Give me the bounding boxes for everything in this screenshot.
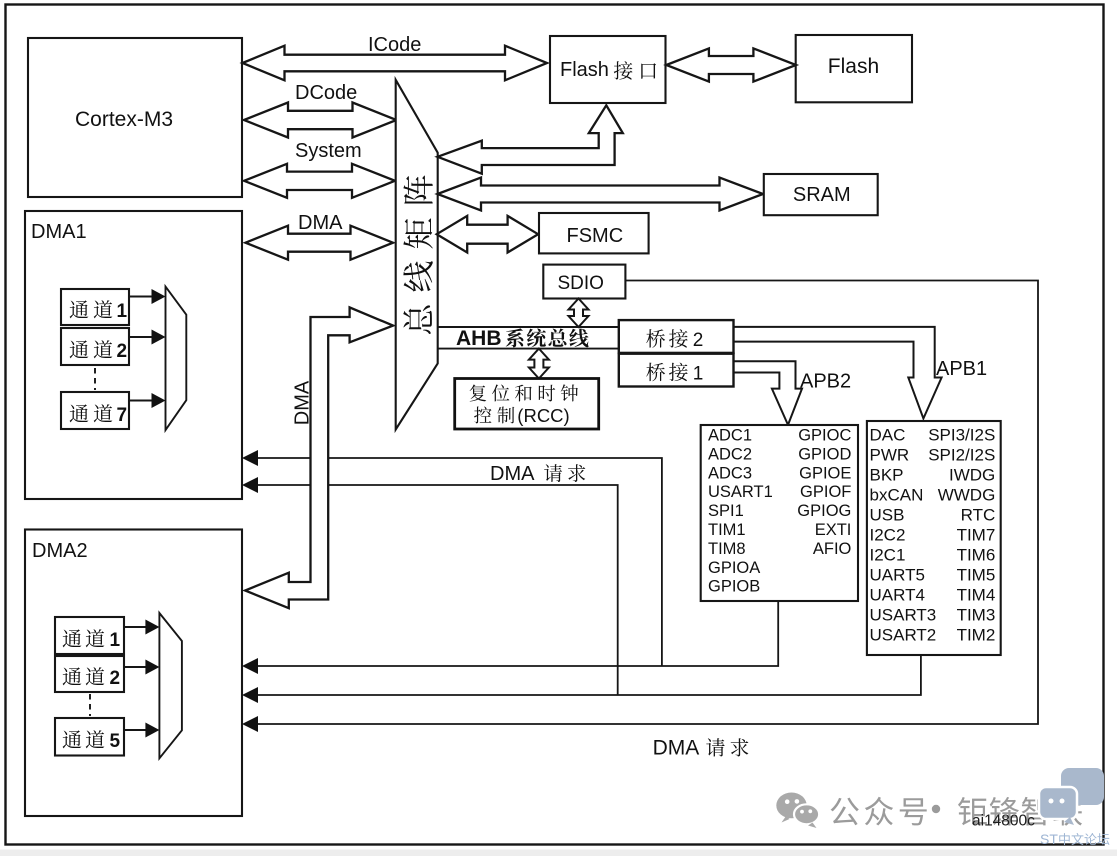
svg-text:2: 2 (110, 668, 121, 689)
wire DMA1 channel7 to mux (129, 393, 166, 408)
svg-text:TIM8: TIM8 (708, 540, 746, 558)
bus arrow DCode with label (244, 82, 397, 138)
svg-text:GPIOB: GPIOB (708, 578, 760, 596)
svg-text:FSMC: FSMC (567, 225, 624, 247)
svg-text:DMA: DMA (653, 737, 700, 760)
svg-text:USART2: USART2 (870, 626, 937, 645)
box DMA2 channel 1 (通道1) (55, 617, 124, 654)
label DMA 请求 (lower) (653, 737, 749, 760)
svg-text:1: 1 (693, 364, 704, 385)
box APB2 peripherals list (701, 425, 858, 601)
box FSMC (539, 213, 649, 253)
box Flash 接口 (Flash interface) (550, 36, 666, 103)
svg-text:GPIOE: GPIOE (799, 464, 851, 482)
watermark text ST中文论坛 (1040, 831, 1109, 847)
box reset and clock control 复位和时钟控制(RCC) (455, 379, 599, 430)
box DMA1 (25, 211, 242, 499)
bus arrow to SRAM (438, 178, 764, 211)
svg-text:WWDG: WWDG (938, 486, 996, 505)
bent bus arrow bus-matrix to Flash interface (438, 105, 623, 173)
box DMA2 channel 2 (通道2) (55, 656, 124, 692)
bus arrow System with label (244, 140, 395, 198)
connector bridge1 to APB2 hollow arrow (734, 361, 803, 425)
svg-text:ADC2: ADC2 (708, 445, 752, 463)
svg-text:DMA: DMA (490, 463, 535, 485)
box DMA1 channel 1 (通道1) (61, 289, 129, 325)
svg-text:1: 1 (117, 301, 128, 322)
AHB system bus band AHB系统总线 (438, 327, 619, 350)
wire DMA2 channel1 to mux (124, 620, 159, 635)
svg-text:ai14800c: ai14800c (972, 813, 1035, 830)
svg-text:RTC: RTC (961, 506, 996, 525)
svg-text:TIM4: TIM4 (957, 586, 996, 605)
svg-text:DMA2: DMA2 (32, 540, 88, 562)
bus matrix trapezoid 总线矩阵 (396, 80, 438, 430)
box Flash (796, 35, 912, 102)
svg-text:AHB: AHB (456, 327, 502, 350)
svg-text:PWR: PWR (870, 446, 910, 465)
box DMA1 channel 7 (通道7) (61, 392, 129, 429)
svg-text:ADC1: ADC1 (708, 427, 752, 445)
watermark text 公众号·钜锋智联 (831, 797, 1082, 826)
bus arrow to FSMC (437, 216, 538, 253)
svg-text:USB: USB (870, 506, 905, 525)
dashed ellipsis between DMA1 channel 2 and 7 (94, 368, 96, 390)
box bridge 1 桥接1 (619, 354, 734, 387)
wire DMA1 channel2 to mux (129, 330, 166, 345)
svg-text:GPIOF: GPIOF (800, 483, 851, 501)
svg-text:1: 1 (110, 630, 121, 651)
box SRAM (764, 174, 878, 215)
wire DMA2 channel2 to mux (124, 660, 159, 675)
svg-text:7: 7 (117, 405, 128, 426)
svg-text:SPI1: SPI1 (708, 502, 744, 520)
box DMA1 channel 2 (通道2) (61, 328, 129, 365)
watermark wechat icon (776, 793, 819, 829)
box Cortex-M3 (28, 38, 242, 197)
svg-text:ST: ST (1040, 831, 1058, 847)
svg-text:TIM6: TIM6 (957, 546, 996, 565)
svg-text:USART1: USART1 (708, 483, 773, 501)
svg-text:APB1: APB1 (936, 358, 987, 380)
dashed ellipsis between DMA2 channel 2 and 5 (89, 694, 91, 716)
svg-text:SDIO: SDIO (558, 273, 604, 294)
svg-text:GPIOG: GPIOG (797, 502, 851, 520)
svg-text:DMA: DMA (298, 212, 343, 234)
watermark blue chat icon (1039, 768, 1104, 825)
bent bus arrow DMA2 to bus matrix (vertical DMA bus) (245, 307, 393, 608)
small arrow SDIO to AHB bus (569, 299, 589, 328)
svg-text:TIM2: TIM2 (957, 626, 996, 645)
svg-text:2: 2 (117, 341, 128, 362)
svg-text:SRAM: SRAM (793, 184, 851, 206)
svg-text:SPI2/I2S: SPI2/I2S (928, 446, 995, 465)
box DMA2 channel 5 (通道5) (55, 718, 124, 756)
svg-text:Flash: Flash (828, 55, 879, 78)
svg-text:I2C2: I2C2 (870, 526, 906, 545)
svg-text:Cortex-M3: Cortex-M3 (75, 108, 173, 131)
bottom page gray strip (0, 850, 1117, 856)
wire DMA request from APB2 to DMA1 and DMA2 (with arrowheads) (242, 450, 778, 674)
svg-text:GPIOC: GPIOC (798, 427, 851, 445)
svg-text:GPIOD: GPIOD (798, 445, 851, 463)
svg-text:ICode: ICode (368, 34, 421, 56)
wire DMA2 channel5 to mux (124, 723, 159, 738)
svg-text:BKP: BKP (870, 466, 904, 485)
svg-text:DCode: DCode (295, 82, 357, 104)
box DMA2 (25, 530, 242, 817)
wire DMA request from APB1 to DMA1 and DMA2 (with arrowheads) (242, 477, 921, 703)
connector bridge2 to APB1 hollow arrow (734, 327, 942, 419)
svg-text:SPI3/I2S: SPI3/I2S (928, 426, 995, 445)
svg-text:DAC: DAC (870, 426, 906, 445)
svg-text:DMA: DMA (292, 380, 314, 425)
svg-text:EXTI: EXTI (815, 521, 852, 539)
bus arrow ICode with label (243, 34, 548, 80)
svg-text:GPIOA: GPIOA (708, 559, 760, 577)
svg-text:I2C1: I2C1 (870, 546, 906, 565)
svg-text:DMA1: DMA1 (31, 221, 87, 243)
DMA2 arbiter mux trapezoid (159, 613, 182, 758)
box SDIO (543, 265, 625, 299)
box APB1 peripherals list (867, 421, 1001, 655)
svg-text:IWDG: IWDG (949, 466, 995, 485)
svg-text:ADC3: ADC3 (708, 464, 752, 482)
svg-text:(RCC): (RCC) (517, 405, 569, 426)
label DMA 请求 (upper) (490, 463, 585, 485)
svg-text:UART4: UART4 (870, 586, 925, 605)
svg-text:5: 5 (110, 731, 121, 752)
svg-text:System: System (295, 140, 362, 162)
svg-text:TIM5: TIM5 (957, 566, 996, 585)
wire DMA request from SDIO loop to DMA2 (with arrowhead) (242, 281, 1038, 733)
svg-text:TIM7: TIM7 (957, 526, 996, 545)
box bridge 2 桥接2 (619, 320, 734, 353)
svg-text:2: 2 (693, 330, 704, 351)
bus arrow Flash interface to Flash memory (666, 48, 796, 81)
svg-text:TIM3: TIM3 (957, 606, 996, 625)
svg-text:Flash: Flash (560, 59, 609, 81)
wire DMA1 channel1 to mux (129, 289, 166, 304)
small arrow AHB bus to RCC (529, 349, 549, 379)
svg-text:USART3: USART3 (870, 606, 937, 625)
svg-text:TIM1: TIM1 (708, 521, 746, 539)
bus arrow DMA (DMA1 to bus matrix) with label (246, 212, 394, 260)
svg-text:APB2: APB2 (800, 371, 851, 393)
svg-text:bxCAN: bxCAN (870, 486, 924, 505)
svg-text:UART5: UART5 (870, 566, 925, 585)
DMA1 arbiter mux trapezoid (166, 287, 187, 431)
svg-text:AFIO: AFIO (813, 540, 852, 558)
